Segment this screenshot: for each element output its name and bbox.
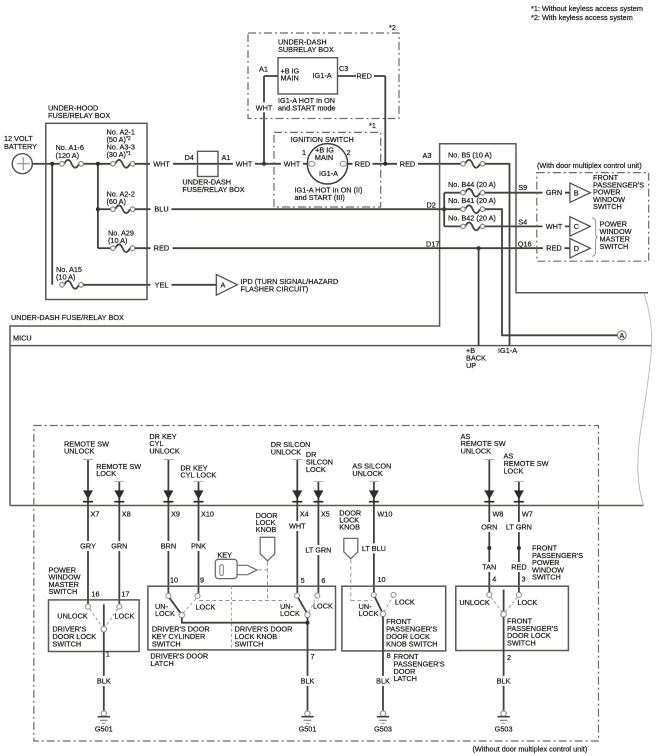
svg-text:SUBRELAY BOX: SUBRELAY BOX <box>278 45 334 54</box>
ground G501 (driver's door latch) <box>299 711 317 733</box>
svg-text:*1: *1 <box>369 121 376 130</box>
arrow C to power window master switch <box>570 217 590 236</box>
fuse No. B44 (20 A) <box>444 180 496 197</box>
under-dash subrelay box (dash-dot, *2 with keyless) <box>248 23 399 119</box>
wire WHT X4 to door lock knob switch pin 5 <box>286 506 308 594</box>
fuse No. B41 (20 A) <box>448 196 496 213</box>
svg-text:UNLOCK: UNLOCK <box>461 447 492 456</box>
svg-text:BLK: BLK <box>97 677 111 686</box>
wire +B BACK UP to MICU <box>466 248 486 370</box>
svg-text:SWITCH: SWITCH <box>593 202 622 211</box>
svg-text:X8: X8 <box>122 509 131 518</box>
svg-text:GRN: GRN <box>111 542 127 551</box>
svg-text:RED: RED <box>546 244 561 253</box>
svg-text:LOCK: LOCK <box>306 465 326 474</box>
ground G501 (driver's door lock switch) <box>95 711 113 733</box>
svg-text:WHT: WHT <box>236 159 253 168</box>
svg-text:RED: RED <box>511 563 526 572</box>
svg-text:LOCK: LOCK <box>359 609 379 618</box>
svg-text:UNLOCK: UNLOCK <box>149 447 180 456</box>
ignition switch (dash-dot box, *1 without keyless) <box>274 132 381 207</box>
under-hood fuse/relay box <box>46 104 147 300</box>
wire main bus inside under-hood box <box>46 162 111 285</box>
note legend keyless access <box>531 4 643 22</box>
ignition switch rotary contact <box>295 144 363 202</box>
svg-text:(With door multiplex control u: (With door multiplex control unit) <box>537 161 642 170</box>
key symbol <box>215 551 267 579</box>
svg-text:LOCK: LOCK <box>313 602 333 611</box>
svg-text:WHT: WHT <box>153 159 170 168</box>
svg-text:17: 17 <box>121 589 129 598</box>
svg-text:WHT: WHT <box>546 222 563 231</box>
svg-text:FUSE/RELAY BOX: FUSE/RELAY BOX <box>48 111 110 120</box>
wire LT BLU W10 to fp door lock knob switch pin 10 <box>358 506 389 593</box>
svg-text:UNLOCK: UNLOCK <box>64 447 95 456</box>
MICU output arrow pin W10 <box>369 481 393 518</box>
fuse No. B42 (20 A) <box>444 213 496 230</box>
svg-text:A: A <box>221 280 226 289</box>
arrow B to front passenger's power window switch <box>570 173 644 211</box>
svg-text:IGNITION SWITCH: IGNITION SWITCH <box>291 135 354 144</box>
svg-text:SWITCH: SWITCH <box>52 640 81 649</box>
svg-text:W10: W10 <box>377 509 392 518</box>
svg-text:LOCK: LOCK <box>155 609 175 618</box>
svg-text:LOCK: LOCK <box>504 466 524 475</box>
wire WHT branch up to subrelay box <box>253 76 278 164</box>
svg-text:UNDER-DASH FUSE/RELAY BOX: UNDER-DASH FUSE/RELAY BOX <box>11 313 124 322</box>
svg-text:RED: RED <box>400 159 415 168</box>
svg-text:D4: D4 <box>185 153 194 162</box>
svg-text:PNK: PNK <box>191 542 206 551</box>
wire B41 output to connector A <box>485 209 618 335</box>
svg-text:LATCH: LATCH <box>394 674 417 683</box>
fuse No. A1-6 (120 A) <box>56 143 84 168</box>
svg-text:GRN: GRN <box>546 188 562 197</box>
svg-text:1: 1 <box>302 148 306 157</box>
svg-text:MAIN: MAIN <box>281 74 299 83</box>
wire BRN X9 to key cylinder switch pin 10 <box>157 506 179 594</box>
svg-text:Q16: Q16 <box>518 239 532 248</box>
svg-text:1: 1 <box>106 650 110 659</box>
MICU signal AS REMOTE SW LOCK <box>504 452 549 476</box>
arrow D to power window master switch <box>570 239 590 258</box>
MICU signal AS REMOTE SW UNLOCK <box>461 432 506 456</box>
svg-text:RED: RED <box>357 72 372 81</box>
svg-text:(60 A): (60 A) <box>107 197 126 206</box>
svg-text:No. B41 (20 A): No. B41 (20 A) <box>448 196 496 205</box>
svg-text:ORN: ORN <box>481 523 497 532</box>
svg-text:*2: With keyless access system: *2: With keyless access system <box>531 13 633 22</box>
svg-text:2: 2 <box>507 653 511 662</box>
variant box (dash-dot, without door multiplex control unit) <box>34 426 599 754</box>
svg-text:WHT: WHT <box>284 159 301 168</box>
svg-text:LOCK: LOCK <box>395 597 415 606</box>
svg-text:MAIN: MAIN <box>315 153 333 162</box>
svg-text:D17: D17 <box>426 239 439 248</box>
wire S9 GRN to front passenger power window switch <box>485 183 570 198</box>
svg-text:8: 8 <box>387 651 391 660</box>
multiplex unit box (dash-dot, with door multiplex control unit) <box>537 161 649 261</box>
svg-text:UNLOCK: UNLOCK <box>57 612 88 621</box>
svg-text:G503: G503 <box>374 724 392 733</box>
svg-text:10: 10 <box>170 575 178 584</box>
ground G503 (fp door latch) <box>374 711 392 733</box>
svg-text:SWITCH: SWITCH <box>532 573 561 582</box>
svg-text:7: 7 <box>311 652 315 661</box>
connector A (circled) <box>617 331 626 340</box>
svg-text:FUSE/RELAY BOX: FUSE/RELAY BOX <box>182 185 244 194</box>
svg-text:D2: D2 <box>427 201 436 210</box>
wire BLK fp knob switch pin 8 to G503 <box>373 617 445 712</box>
door lock knob symbol (driver) <box>256 511 278 601</box>
svg-text:RED: RED <box>355 159 370 168</box>
svg-text:D: D <box>574 244 579 253</box>
MICU output arrow pin X9 <box>163 460 180 519</box>
svg-text:SWITCH: SWITCH <box>152 640 181 649</box>
svg-text:6: 6 <box>321 576 325 585</box>
svg-text:IG1-A: IG1-A <box>498 346 517 355</box>
torn page edge <box>638 293 652 506</box>
svg-text:RED: RED <box>154 244 169 253</box>
wire key cylinder common to knob common <box>182 618 308 623</box>
wire RED ignition to fuse B5 <box>348 151 462 169</box>
svg-text:TAN: TAN <box>482 563 496 572</box>
connector D4/A1 under-dash fuse/relay box pass-through <box>182 151 244 194</box>
wire RED from subrelay C3 down to main wire <box>338 72 386 164</box>
MICU signal DR SILCON UNLOCK <box>271 440 311 456</box>
svg-text:IG1-A: IG1-A <box>313 71 332 80</box>
svg-text:BATTERY: BATTERY <box>4 142 37 151</box>
fuse No. A15 (10 A) <box>56 265 83 289</box>
svg-text:LOCK: LOCK <box>115 612 135 621</box>
wire GRN X8 to master switch pin 17 <box>108 506 130 605</box>
svg-text:3: 3 <box>522 575 526 584</box>
svg-text:X7: X7 <box>91 509 100 518</box>
svg-text:16: 16 <box>91 589 99 598</box>
label power window master switch <box>49 566 81 597</box>
under-dash fuse/relay box outline with MICU <box>10 144 652 506</box>
svg-text:A1: A1 <box>222 153 231 162</box>
svg-text:BLK: BLK <box>376 677 390 686</box>
svg-text:CYL LOCK: CYL LOCK <box>180 471 216 480</box>
svg-text:KNOB SWITCH: KNOB SWITCH <box>386 639 437 648</box>
svg-text:X10: X10 <box>201 509 214 518</box>
fuse No. B5 (10 A) <box>448 151 492 168</box>
svg-text:KEY: KEY <box>217 551 232 560</box>
svg-text:G503: G503 <box>495 724 513 733</box>
fuse No. A2-1 (50 A) / No. A3-3 (30 A) <box>107 128 135 168</box>
svg-text:G501: G501 <box>95 724 113 733</box>
svg-text:S9: S9 <box>518 183 527 192</box>
svg-text:9: 9 <box>200 575 204 584</box>
svg-text:SWITCH: SWITCH <box>507 639 536 648</box>
svg-text:BLK: BLK <box>301 677 315 686</box>
svg-text:GRY: GRY <box>80 542 96 551</box>
wire GRY X7 to master switch pin 16 <box>77 506 100 605</box>
switch fp door lock knob contacts <box>371 592 396 616</box>
svg-text:No. B5 (10 A): No. B5 (10 A) <box>448 151 492 160</box>
svg-text:G501: G501 <box>299 724 317 733</box>
relay +B IG MAIN / IG1-A (subrelay internal) <box>259 58 348 113</box>
svg-text:C3: C3 <box>339 64 348 73</box>
svg-text:BLU: BLU <box>154 205 168 214</box>
battery BAT (12 VOLT BATTERY) <box>4 134 37 174</box>
svg-text:A3: A3 <box>423 151 432 160</box>
svg-text:A1: A1 <box>259 65 268 74</box>
MICU output arrow pin X7 <box>83 460 99 519</box>
wire BLK driver's door lock switch to G501 <box>93 632 114 711</box>
svg-text:SWITCH: SWITCH <box>600 242 629 251</box>
MICU output arrow pin W7 <box>514 481 533 518</box>
wire LT GRN/RED W7 to fp door lock switch pin 3 <box>503 506 534 593</box>
svg-text:and START mode: and START mode <box>278 104 336 113</box>
svg-text:and START (III): and START (III) <box>295 193 345 202</box>
svg-text:LT BLU: LT BLU <box>362 544 386 553</box>
svg-text:4: 4 <box>492 575 496 584</box>
wire bus D2 to B44/B42 <box>442 193 446 227</box>
svg-text:LT GRN: LT GRN <box>305 546 331 555</box>
MICU output arrow pin X5 <box>313 481 329 518</box>
fuse No. A29 (10 A) <box>98 229 135 253</box>
switch fp door lock contacts <box>487 590 522 618</box>
MICU output arrow pin X8 <box>114 481 130 518</box>
svg-text:UP: UP <box>466 361 476 370</box>
svg-text:(120 A): (120 A) <box>56 151 80 160</box>
svg-text:X4: X4 <box>300 509 309 518</box>
wire YEL to IPD flasher circuit <box>83 280 216 290</box>
wire WHT main feed to ignition <box>135 159 219 169</box>
svg-text:X9: X9 <box>171 509 180 518</box>
wire ORN/TAN W8 to fp door lock switch pin 4 <box>478 506 500 593</box>
ground G503 (fp door lock switch) <box>495 711 513 733</box>
svg-text:C: C <box>574 222 579 231</box>
svg-text:UNLOCK: UNLOCK <box>271 448 302 457</box>
door lock knob symbol (front passenger) <box>339 508 372 600</box>
svg-text:BRN: BRN <box>161 542 176 551</box>
svg-text:W7: W7 <box>522 509 533 518</box>
svg-text:LOCK: LOCK <box>280 609 300 618</box>
svg-text:SWITCH: SWITCH <box>49 587 78 596</box>
arrow A IPD turn signal/hazard flasher circuit <box>216 274 338 295</box>
wire RED D17/Q16 to power window master switch <box>135 239 570 253</box>
svg-text:KNOB: KNOB <box>256 525 277 534</box>
svg-text:(10 A): (10 A) <box>56 273 75 282</box>
svg-text:IG1-A: IG1-A <box>319 169 338 178</box>
MICU signal AS SILCON UNLOCK <box>352 462 391 478</box>
switch driver's door key cylinder contacts <box>166 593 200 617</box>
wire battery to under-hood box <box>32 163 46 165</box>
svg-text:X5: X5 <box>321 509 330 518</box>
svg-text:WHT: WHT <box>289 522 306 531</box>
fuse No. A2-2 (60 A) <box>98 190 135 214</box>
MICU signal DR KEY CYL UNLOCK <box>149 432 180 456</box>
MICU output arrow pin X10 <box>194 481 214 518</box>
label front passenger's power window switch tap <box>532 544 583 582</box>
wire BLK knob switch pin 7 to G501 <box>297 618 318 712</box>
MICU signal REMOTE SW LOCK <box>96 462 141 478</box>
svg-text:KNOB: KNOB <box>339 522 360 531</box>
mechanical link key cylinder/knob <box>199 600 287 602</box>
MICU signal DR KEY CYL LOCK <box>180 463 216 479</box>
MICU output arrow pin W8 <box>484 460 503 519</box>
svg-text:LOCK: LOCK <box>196 602 216 611</box>
svg-text:2: 2 <box>347 148 351 157</box>
svg-text:SWITCH: SWITCH <box>235 640 264 649</box>
svg-text:YEL: YEL <box>155 280 169 289</box>
wire PNK X10 to key cylinder switch pin 9 <box>188 506 210 594</box>
svg-text:*1: Without keyless access sys: *1: Without keyless access system <box>531 4 643 13</box>
MICU signal REMOTE SW UNLOCK <box>64 439 109 455</box>
svg-text:(Without door multiplex contro: (Without door multiplex control unit) <box>473 744 588 753</box>
MICU signal DR SILCON LOCK <box>306 450 333 474</box>
svg-text:B: B <box>574 188 579 197</box>
svg-text:(10 A): (10 A) <box>108 236 127 245</box>
brace power window master switch <box>592 218 632 256</box>
svg-text:*2: *2 <box>389 23 396 32</box>
MICU output arrow pin X4 <box>292 460 308 519</box>
svg-text:LATCH: LATCH <box>150 659 173 668</box>
wire BLU from under-hood to fuse B41 <box>135 201 461 215</box>
wire S4 WHT to power window master switch <box>485 217 570 231</box>
svg-text:UNLOCK: UNLOCK <box>459 598 490 607</box>
svg-text:No. B44 (20 A): No. B44 (20 A) <box>448 180 496 189</box>
switch driver's door lock knob contacts <box>280 593 333 618</box>
wire BLK fp door lock switch pin 2 to G503 <box>493 617 514 711</box>
front passenger's door lock switch box <box>456 586 569 650</box>
svg-text:LOCK: LOCK <box>517 598 537 607</box>
svg-text:No. B42 (20 A): No. B42 (20 A) <box>448 213 496 222</box>
front passenger's door lock knob switch box <box>342 586 446 651</box>
svg-text:10: 10 <box>378 575 386 584</box>
svg-text:S4: S4 <box>518 217 527 226</box>
switch driver's door lock contacts <box>86 604 122 632</box>
svg-text:A: A <box>619 331 624 340</box>
driver's door key cylinder / lock knob switch box <box>148 586 336 668</box>
wire WHT from D4 box to ignition switch <box>219 159 307 169</box>
svg-text:LT GRN: LT GRN <box>506 523 532 532</box>
wire IG1-A from fuse B5 down to MICU <box>485 164 517 355</box>
svg-text:WHT: WHT <box>256 103 273 112</box>
svg-text:FLASHER CIRCUIT): FLASHER CIRCUIT) <box>241 285 309 294</box>
svg-text:BLK: BLK <box>497 677 511 686</box>
svg-text:5: 5 <box>301 576 305 585</box>
svg-text:W8: W8 <box>493 509 504 518</box>
svg-text:MICU: MICU <box>13 334 32 343</box>
wire LT GRN X5 to door lock knob switch pin 6 <box>303 506 334 594</box>
driver's door lock switch box <box>49 600 140 652</box>
svg-text:UNLOCK: UNLOCK <box>352 469 383 478</box>
svg-text:LOCK: LOCK <box>96 469 116 478</box>
